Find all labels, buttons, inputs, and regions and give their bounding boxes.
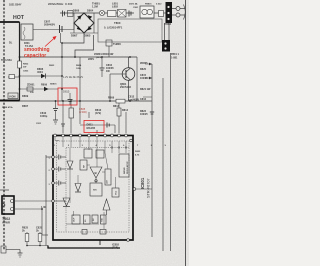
svg-text:T801/15A: T801/15A xyxy=(1,59,12,62)
svg-text:capacitor: capacitor xyxy=(24,53,46,59)
svg-text:(47k): (47k) xyxy=(95,111,101,115)
svg-text:(30.0): (30.0) xyxy=(96,57,102,59)
svg-text:D823: D823 xyxy=(135,151,141,153)
svg-text:D809: D809 xyxy=(22,94,29,98)
svg-text:100/25: 100/25 xyxy=(140,113,148,116)
svg-text:ZD805: ZD805 xyxy=(140,62,148,65)
svg-text:(Y400): (Y400) xyxy=(79,110,87,114)
svg-text:1.2V 2E 3E 3S 2V: 1.2V 2E 3E 3S 2V xyxy=(63,76,83,79)
svg-text:VCC: VCC xyxy=(116,190,118,195)
svg-text:100/35: 100/35 xyxy=(140,77,148,80)
svg-text:R809: R809 xyxy=(41,84,48,87)
svg-text:250V 4A: 250V 4A xyxy=(129,3,138,6)
svg-text:L802: L802 xyxy=(112,5,118,9)
svg-text:R802: R802 xyxy=(23,64,29,66)
svg-text:D805: D805 xyxy=(84,34,91,38)
svg-text:4004: 4004 xyxy=(37,70,43,74)
svg-text:STR-F6707: STR-F6707 xyxy=(147,178,151,198)
svg-text:1000p: 1000p xyxy=(40,114,48,118)
svg-text:A7WR: A7WR xyxy=(2,221,10,225)
svg-text:MA165: MA165 xyxy=(87,126,96,130)
svg-text:DRIVE: DRIVE xyxy=(124,167,126,174)
svg-text:V-DN: V-DN xyxy=(9,95,15,99)
svg-text:DL: DL xyxy=(9,42,13,45)
svg-text:1 2 3 4 5 6 7 8 9: 1 2 3 4 5 6 7 8 9 xyxy=(54,144,172,147)
svg-text:R808 470k: R808 470k xyxy=(2,106,13,109)
svg-text:200/400V: 200/400V xyxy=(44,23,55,27)
svg-text:R807: R807 xyxy=(22,104,29,108)
svg-text:S/S: S/S xyxy=(93,190,97,192)
svg-text:1-881: 1-881 xyxy=(171,57,178,60)
svg-text:ZD801 R810 1W: ZD801 R810 1W xyxy=(94,52,114,56)
svg-text:FB801: FB801 xyxy=(145,4,152,6)
svg-text:R804: R804 xyxy=(76,64,82,67)
svg-text:D807: D807 xyxy=(71,34,78,38)
svg-text:T3.15A: T3.15A xyxy=(25,45,33,48)
svg-text:D815: D815 xyxy=(63,90,70,94)
svg-text:TH800: TH800 xyxy=(113,42,121,46)
svg-text:R820: R820 xyxy=(140,68,147,71)
svg-text:120k: 120k xyxy=(76,68,82,70)
svg-text:1.2M: 1.2M xyxy=(92,5,98,9)
svg-text:1W: 1W xyxy=(106,70,110,73)
svg-text:R806: R806 xyxy=(108,96,115,100)
svg-text:1821 D84Y: 1821 D84Y xyxy=(9,4,22,7)
svg-text:SE801: SE801 xyxy=(50,84,57,86)
svg-text:2SC5448: 2SC5448 xyxy=(120,85,131,89)
svg-text:R813: R813 xyxy=(113,105,120,108)
svg-text:R803: R803 xyxy=(49,65,55,67)
svg-text:R814: R814 xyxy=(122,109,129,112)
svg-text:ZD801: ZD801 xyxy=(27,84,35,87)
svg-text:0. L/G20/14FF1: 0. L/G20/14FF1 xyxy=(104,26,123,30)
svg-text:T802: T802 xyxy=(2,217,10,221)
svg-text:280V: 280V xyxy=(88,57,94,61)
svg-text:C803: C803 xyxy=(23,71,29,73)
svg-text:C801: C801 xyxy=(133,7,139,9)
svg-text:C811: C811 xyxy=(36,123,42,125)
svg-text:REGULATOR: REGULATOR xyxy=(126,161,129,174)
svg-text:220Vu/50Hz X 400: 220Vu/50Hz X 400 xyxy=(48,2,73,6)
svg-text:D804: D804 xyxy=(87,9,94,13)
svg-text:HOT: HOT xyxy=(13,15,25,21)
svg-text:D806: D806 xyxy=(73,9,80,13)
svg-text:T800: T800 xyxy=(114,21,121,25)
svg-text:OCP: OCP xyxy=(74,217,76,222)
svg-text:(718): (718) xyxy=(112,246,118,250)
svg-text:TSD: TSD xyxy=(102,217,104,222)
svg-text:C816: C816 xyxy=(140,98,147,101)
svg-text:R821 1W: R821 1W xyxy=(140,88,151,91)
svg-text:IC801: IC801 xyxy=(140,177,145,189)
svg-text:0.022: 0.022 xyxy=(156,4,162,6)
